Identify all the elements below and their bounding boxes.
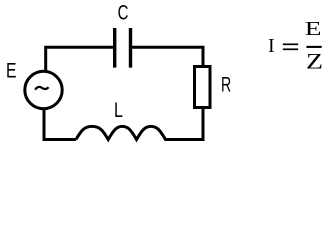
capacitor C1 (115, 28, 131, 68)
wire resistor bottom to bottom-right corner to inductor (165, 108, 204, 140)
inductor L1 (76, 126, 166, 139)
svg-text:R: R (221, 74, 231, 97)
equation I = E/Z (268, 18, 323, 73)
resistor R1 (195, 67, 211, 108)
svg-text:I: I (268, 35, 275, 57)
wire capacitor to top-right corner to resistor top (132, 47, 204, 67)
svg-text:L: L (114, 99, 123, 122)
svg-text:E: E (6, 60, 17, 83)
wire source top to top-left corner to capacitor (46, 47, 114, 72)
wire inductor to bottom-left corner to source bottom (44, 108, 76, 140)
= (283, 43, 298, 45)
svg-text:Z: Z (306, 48, 323, 73)
fraction bar (306, 46, 321, 48)
svg-text:C: C (118, 2, 129, 25)
svg-text:E: E (305, 18, 322, 40)
AC source E1 (25, 71, 62, 108)
